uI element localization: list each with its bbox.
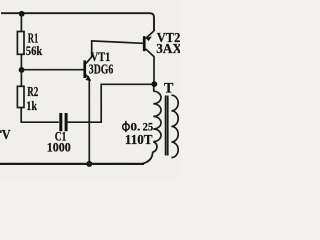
wire top rail with rounded corner into right vertical <box>1 13 154 31</box>
wire C1 right plate to feedback node D <box>68 84 155 122</box>
wire VT2 collector down to node D <box>153 56 155 84</box>
wire bottom rail <box>0 163 144 165</box>
capacitor C1 left plate <box>59 113 62 131</box>
svg-text:3AX31: 3AX31 <box>156 41 180 56</box>
transformer T primary winding (4 loops, bulge right) <box>153 91 161 141</box>
wire primary top stub <box>153 84 155 91</box>
resistor R2 body <box>17 86 24 107</box>
transistor VT2 base bar <box>143 36 146 51</box>
transistor VT2 emitter arm (upper) <box>146 31 154 39</box>
transformer core line right <box>167 96 169 156</box>
wire R2 bottom to C1 left plate <box>21 108 59 123</box>
svg-text:3DG6: 3DG6 <box>89 62 114 77</box>
svg-text:V: V <box>2 127 11 142</box>
node junction dot emitter to bottom rail <box>86 161 92 167</box>
svg-text:R2: R2 <box>27 84 38 99</box>
wire VT1 base wire <box>21 69 83 71</box>
svg-text:56k: 56k <box>26 44 43 58</box>
wire R1 top stub <box>20 13 22 31</box>
wire R1 bottom stub <box>20 54 22 69</box>
svg-text:R1: R1 <box>28 30 39 45</box>
capacitor C1 right plate <box>65 113 68 131</box>
transistor VT1 emitter arm <box>86 75 90 81</box>
node junction dot on top rail at R1 <box>19 11 25 17</box>
wire primary bottom into bottom rail (rounded) <box>143 142 157 164</box>
transistor VT2 emitter arrow (PNP, pointing into bar) <box>146 36 152 41</box>
svg-text:1k: 1k <box>26 99 37 113</box>
transformer core line left <box>165 96 167 156</box>
transistor VT1 collector arm and wire to VT2 base <box>86 41 143 64</box>
svg-text:T: T <box>164 80 174 96</box>
transistor VT1 emitter arrow (NPN, pointing out) <box>86 76 91 82</box>
wire VT2 emitter up to top rail corner <box>153 29 155 32</box>
wire R2 top stub <box>20 70 22 87</box>
partial glyph of battery voltage at left edge <box>0 130 2 133</box>
svg-text:110T: 110T <box>125 132 153 147</box>
resistor R1 body <box>17 32 24 55</box>
svg-text:1000: 1000 <box>47 141 71 155</box>
transistor VT2 collector arm (lower) <box>146 49 154 57</box>
wire VT1 emitter down to bottom rail <box>88 81 90 164</box>
transistor VT1 base bar <box>83 60 86 78</box>
node junction dot R1/R2/base <box>19 67 25 73</box>
transformer T secondary winding (4 loops, bulge right) <box>171 95 178 157</box>
label phi symbol of wire gauge <box>123 121 130 132</box>
node junction dot D (VT2 collector / feedback / primary) <box>151 81 157 87</box>
